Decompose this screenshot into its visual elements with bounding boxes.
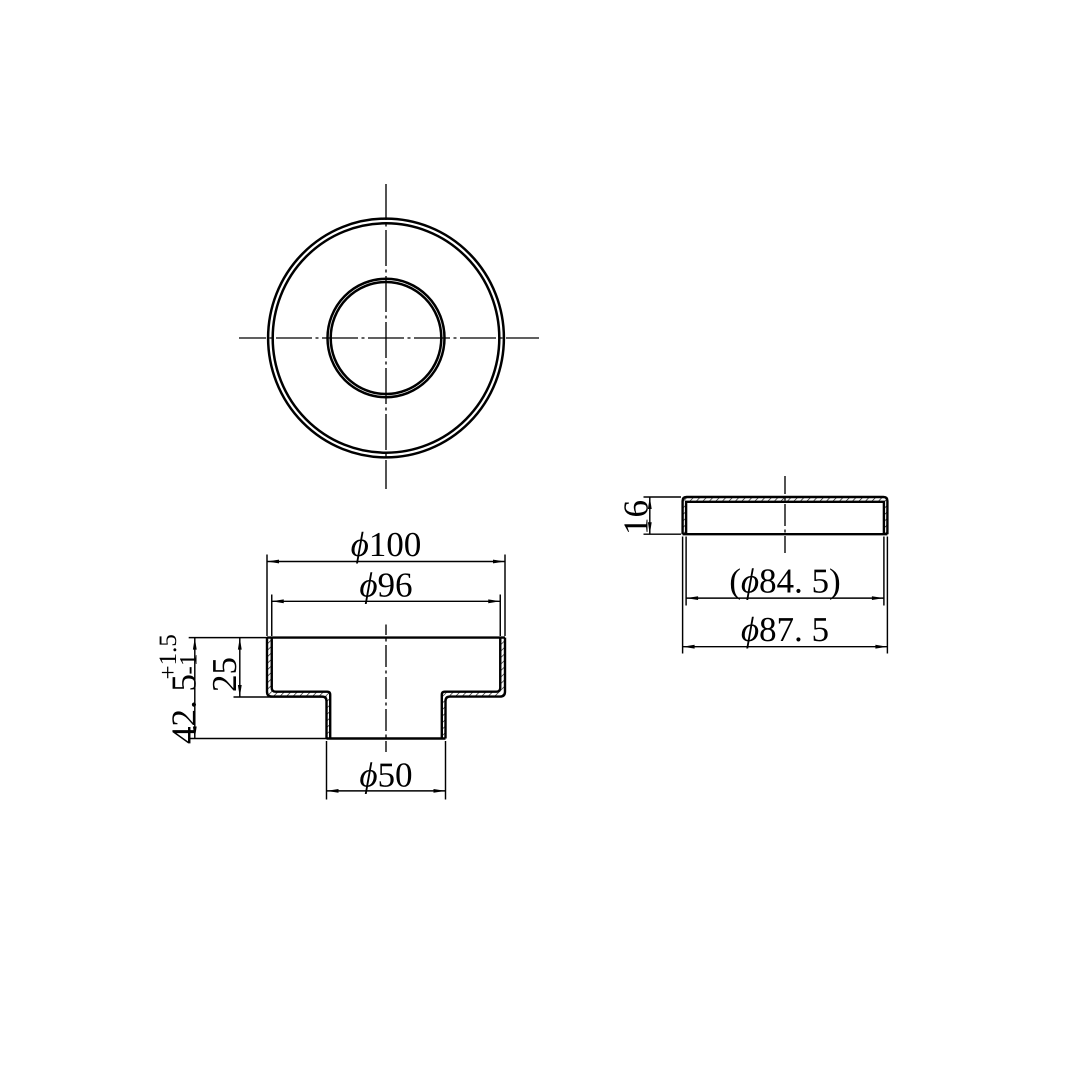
top view circle (flange ID 96) (273, 223, 500, 452)
dim 42.5 top arrowhead (193, 638, 197, 650)
dim phi84.5 left arrowhead (686, 596, 698, 600)
dim phi96 dimension line (272, 600, 501, 602)
dim phi96 right arrowhead (488, 599, 500, 603)
right view vertical centerline (784, 476, 786, 553)
dim phi100 left extension line (266, 555, 268, 637)
dim phi96 left arrowhead (272, 599, 284, 603)
dim 16 bottom arrowhead (648, 522, 652, 534)
right view inner profile (686, 502, 884, 534)
dim phi100 right arrowhead (493, 560, 505, 564)
top view hole circle (tube OD 50) (328, 279, 445, 397)
dim phi100 left arrowhead (267, 560, 279, 564)
dim 16 dimension line (649, 497, 651, 534)
dim phi84.5 dimension line (686, 597, 884, 599)
dim 25 bottom extension line (234, 696, 327, 698)
front right outer profile (446, 638, 506, 739)
dim phi84.5 right arrowhead (872, 596, 884, 600)
front left inner profile (272, 638, 330, 739)
dim 42.5 bottom arrowhead (193, 727, 197, 739)
right view section hatch (cap cut material) (683, 497, 888, 534)
front top edge line (267, 636, 505, 638)
dim 42.5 dimension line (194, 638, 196, 739)
dim phi87.5 left arrowhead (683, 645, 695, 649)
dim phi50 text (360, 762, 411, 794)
dim phi96 left extension line (271, 595, 273, 637)
dim phi50 left arrowhead (327, 789, 339, 793)
dim phi50 right extension line (445, 741, 447, 800)
top view vertical centerline (385, 184, 387, 489)
dim 25 dimension line (239, 638, 241, 697)
dim 25 top arrowhead (238, 638, 242, 650)
right view bottom rim edge (683, 533, 888, 535)
dim 16 bottom extension line (644, 533, 682, 535)
dim phi87.5 right arrowhead (875, 645, 887, 649)
dim 16 top extension line (644, 496, 682, 498)
top view horizontal centerline (239, 337, 539, 339)
dim phi50 dimension line (327, 790, 446, 792)
dim phi87.5 right extension line (886, 537, 888, 654)
dim 16 text (rotated) (624, 501, 648, 532)
dim phi84.5 right extension line (883, 537, 885, 606)
dim 42.5 bottom extension line (189, 738, 327, 740)
dim 42.5 tolerance upper text +1.5 (rotated) (159, 635, 176, 678)
front section hatch (cut material) (267, 638, 505, 739)
dim phi100 right extension line (504, 555, 506, 637)
right view outer profile (683, 497, 888, 534)
top view bore circle (tube ID 47) (331, 282, 442, 394)
dim phi100 dimension line (267, 561, 505, 563)
dim 25 text (rotated) (213, 658, 237, 690)
front tube bottom edge (327, 737, 446, 739)
dim phi84.5 text (731, 568, 839, 600)
top view outer circle (flange OD 100) (268, 219, 504, 458)
front left outer profile (267, 638, 327, 739)
dim phi84.5 left extension line (685, 537, 687, 606)
dim phi100 text (351, 532, 419, 564)
dim phi96 right extension line (499, 595, 501, 637)
dim phi50 right arrowhead (434, 789, 446, 793)
shared top extension line for 25 and 42.5 dims (189, 637, 267, 639)
dim phi87.5 text (742, 617, 828, 649)
dim 42.5 tolerance lower text -1 (rotated) (180, 655, 197, 673)
dim phi50 left extension line (326, 741, 328, 800)
dim 16 top arrowhead (648, 497, 652, 509)
dim phi96 text (360, 572, 411, 604)
dim phi87.5 left extension line (682, 537, 684, 654)
dim 25 bottom arrowhead (238, 685, 242, 697)
dim 42.5 main text (rotated) (172, 675, 196, 743)
front vertical centerline (385, 625, 387, 753)
dim phi87.5 dimension line (683, 646, 888, 648)
front right inner profile (442, 638, 500, 739)
